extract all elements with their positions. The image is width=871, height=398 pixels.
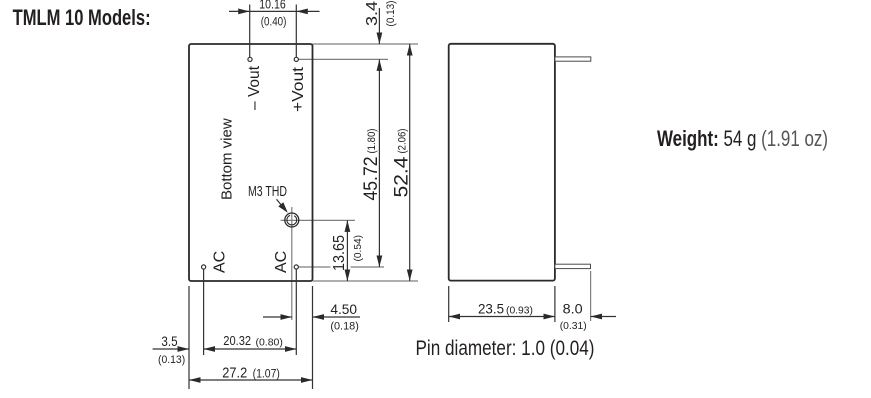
- svg-text:(1.07): (1.07): [253, 369, 280, 381]
- svg-text:20.32: 20.32: [223, 333, 251, 348]
- svg-text:13.65: 13.65: [331, 235, 348, 271]
- svg-text:(1.80): (1.80): [366, 129, 378, 154]
- svg-text:AC: AC: [212, 251, 229, 273]
- svg-text:AC: AC: [273, 251, 290, 273]
- svg-text:10.16: 10.16: [259, 0, 285, 12]
- svg-text:+Vout: +Vout: [290, 66, 307, 112]
- svg-text:8.0: 8.0: [563, 301, 583, 316]
- svg-text:(2.06): (2.06): [397, 129, 409, 154]
- svg-text:(0.54): (0.54): [352, 235, 364, 262]
- svg-text:3.5: 3.5: [161, 334, 177, 349]
- svg-text:(0.18): (0.18): [330, 321, 359, 333]
- svg-text:(0.93): (0.93): [506, 305, 533, 317]
- svg-text:52.4: 52.4: [392, 156, 413, 197]
- svg-text:(0.40): (0.40): [261, 16, 287, 28]
- svg-text:Bottom view: Bottom view: [219, 118, 236, 200]
- svg-text:(0.13): (0.13): [385, 1, 397, 27]
- svg-text:27.2: 27.2: [222, 366, 247, 382]
- svg-text:23.5: 23.5: [478, 301, 504, 317]
- svg-text:TMLM 10 Models:: TMLM 10 Models:: [13, 5, 151, 30]
- svg-text:(0.80): (0.80): [256, 336, 283, 348]
- svg-text:Pin diameter: 1.0 (0.04): Pin diameter: 1.0 (0.04): [416, 337, 595, 360]
- svg-text:4.50: 4.50: [330, 302, 357, 317]
- svg-text:45.72: 45.72: [361, 157, 382, 201]
- svg-text:3.4: 3.4: [364, 1, 381, 26]
- svg-text:(0.31): (0.31): [560, 320, 587, 332]
- svg-text:M3 THD: M3 THD: [248, 184, 287, 200]
- svg-text:– Vout: – Vout: [246, 65, 263, 110]
- svg-text:Weight: 54 g (1.91 oz): Weight: 54 g (1.91 oz): [657, 126, 828, 151]
- svg-text:(0.13): (0.13): [158, 354, 185, 366]
